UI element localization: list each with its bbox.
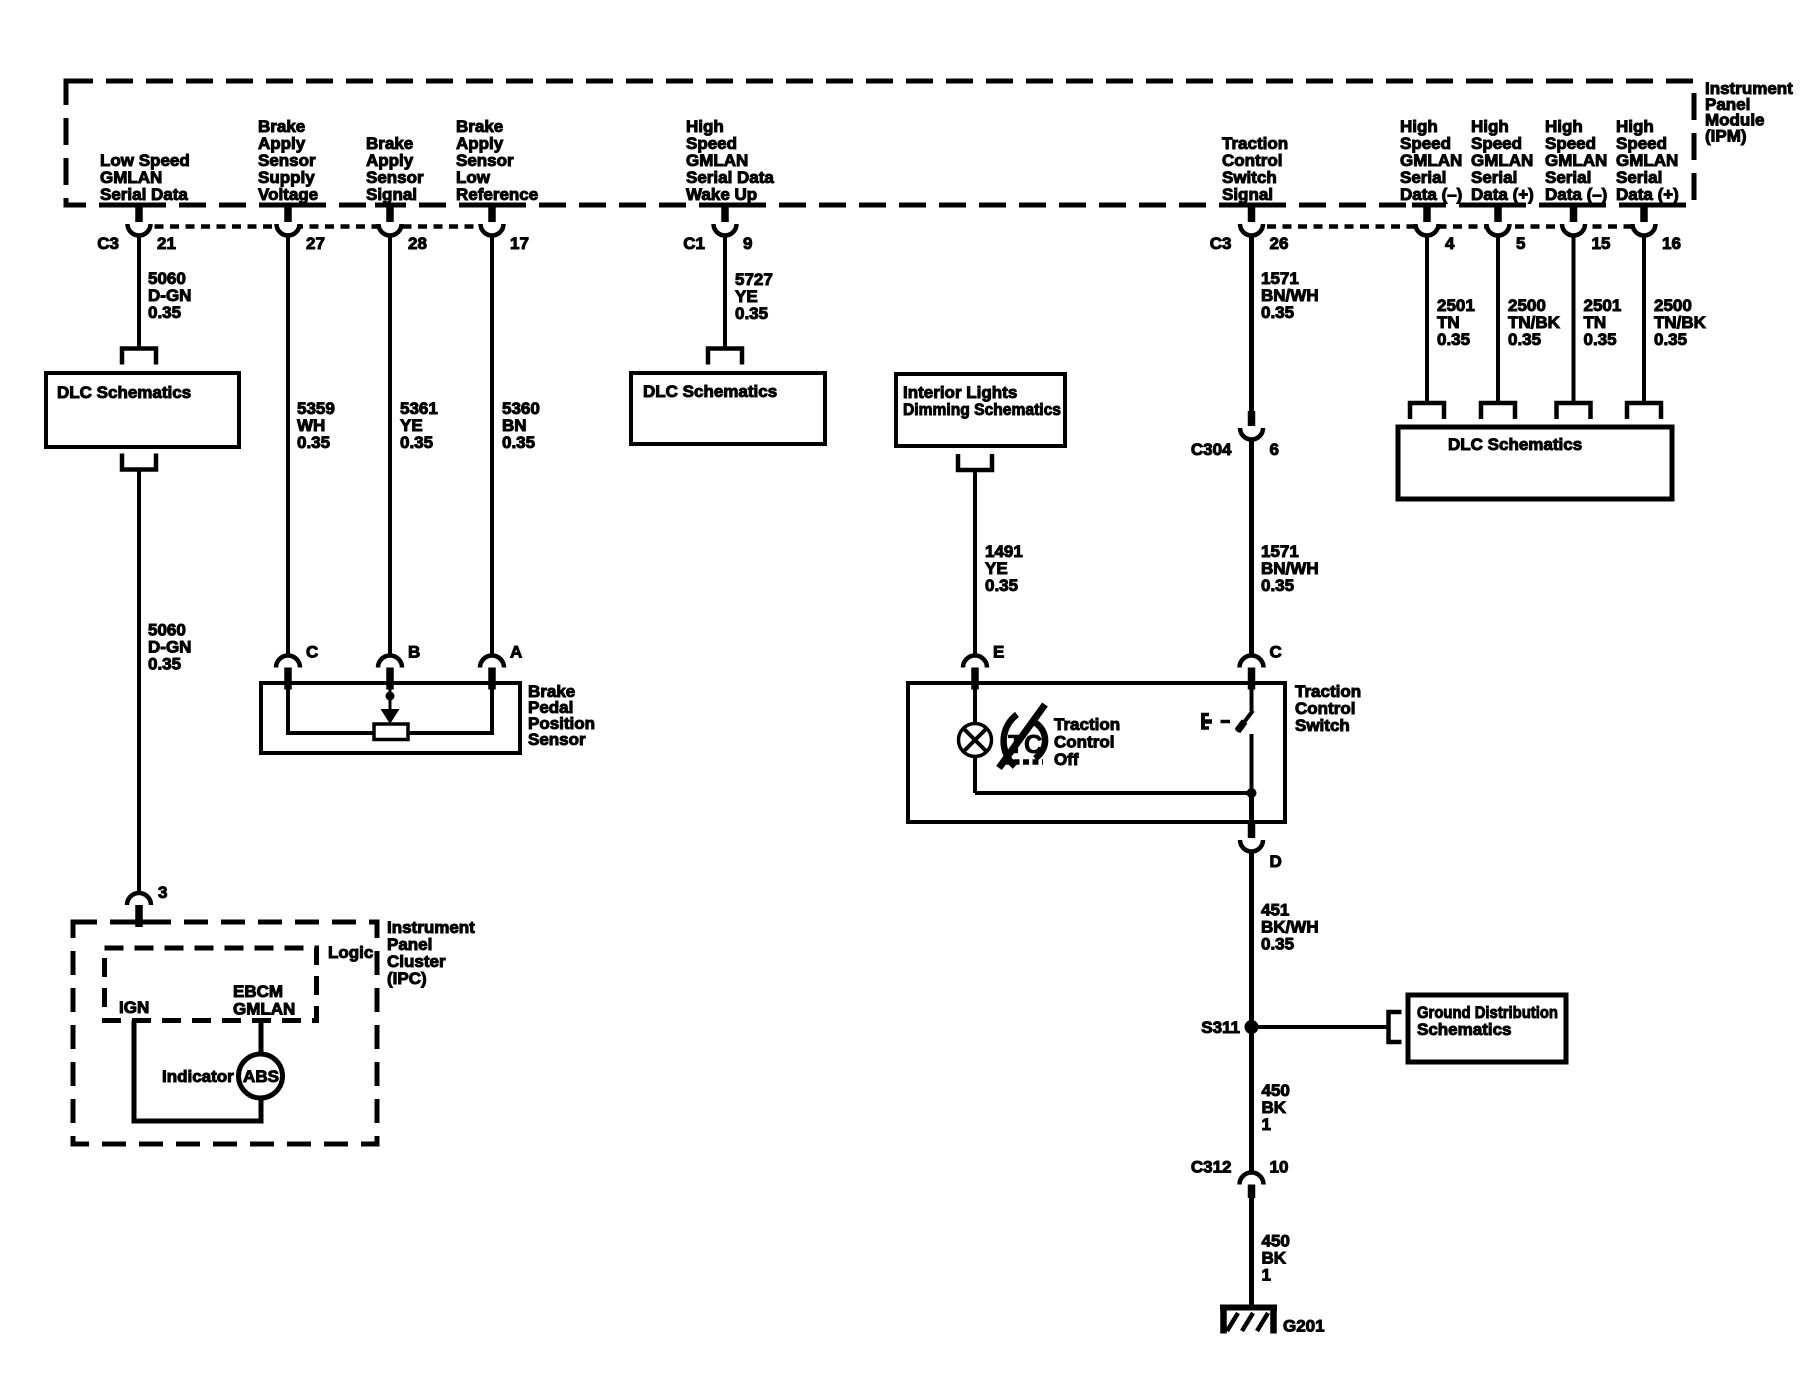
traction control off (TC) icon bbox=[999, 705, 1045, 769]
svg-text:Serial Data: Serial Data bbox=[100, 185, 188, 204]
svg-text:0.35: 0.35 bbox=[1437, 330, 1470, 349]
IPM edge tick at connector x=1251.5 bbox=[1237, 203, 1267, 208]
label: Indicator bbox=[162, 1067, 234, 1086]
connector pin 17 bbox=[481, 203, 529, 253]
svg-text:E: E bbox=[993, 643, 1004, 662]
wire 2501 TN (pin 4) bbox=[1425, 234, 1429, 402]
box: DLC Schematics (right) bbox=[1398, 427, 1672, 499]
label: Brake Apply Sensor Supply Voltage bbox=[258, 117, 318, 204]
svg-text:Traction: Traction bbox=[1054, 715, 1120, 734]
svg-text:S311: S311 bbox=[1201, 1018, 1240, 1037]
svg-text:C3: C3 bbox=[97, 234, 119, 253]
connector C3 pin 21 bbox=[97, 203, 176, 253]
wire 5361 YE bbox=[388, 234, 392, 656]
label: wire 5060 D-GN 0.35 (upper) bbox=[148, 269, 191, 322]
potentiometer element bbox=[374, 724, 408, 740]
wire 5060 D-GN upper segment bbox=[137, 234, 141, 348]
svg-text:1: 1 bbox=[1262, 1266, 1271, 1285]
label: High Speed GMLAN Serial Data (-) pin4 bbox=[1400, 117, 1462, 204]
wire 450 BK lower segment bbox=[1249, 1198, 1254, 1309]
label: wire 450 BK 1 (upper) bbox=[1262, 1081, 1290, 1134]
svg-text:Voltage: Voltage bbox=[258, 185, 318, 204]
svg-text:3: 3 bbox=[158, 883, 167, 902]
label: wire 450 BK 1 (lower) bbox=[1262, 1232, 1290, 1285]
svg-text:Indicator: Indicator bbox=[162, 1067, 234, 1086]
svg-text:D: D bbox=[1270, 852, 1282, 871]
svg-text:0.35: 0.35 bbox=[1584, 330, 1617, 349]
box: DLC Schematics (middle) bbox=[631, 373, 825, 444]
label: Logic bbox=[328, 943, 373, 962]
svg-text:21: 21 bbox=[157, 234, 176, 253]
svg-text:C312: C312 bbox=[1191, 1158, 1232, 1177]
IPM edge tick at connector x=390 bbox=[375, 203, 405, 208]
svg-text:IGN: IGN bbox=[119, 998, 149, 1017]
IPM edge tick at connector x=725 bbox=[710, 203, 740, 208]
svg-text:0.35: 0.35 bbox=[1508, 330, 1541, 349]
switch fixed contact symbol bbox=[1201, 713, 1212, 730]
wire 2501 TN (pin 15) bbox=[1572, 234, 1576, 402]
off-page bracket to Ground Distribution Schematics bbox=[1389, 1012, 1402, 1042]
svg-text:Dimming Schematics: Dimming Schematics bbox=[903, 400, 1061, 419]
wire 5727 YE bbox=[723, 234, 727, 348]
svg-text:Control: Control bbox=[1054, 733, 1114, 752]
IPM edge tick at connector x=1427 bbox=[1412, 203, 1442, 208]
label: High Speed GMLAN Serial Data (+) pin16 bbox=[1616, 117, 1679, 204]
connector pin 4 bbox=[1416, 203, 1456, 253]
svg-text:Schematics: Schematics bbox=[1417, 1020, 1512, 1039]
label: wire 5727 YE 0.35 bbox=[735, 270, 773, 323]
svg-text:26: 26 bbox=[1270, 234, 1289, 253]
label: Brake Apply Sensor Signal bbox=[366, 134, 424, 204]
svg-text:A: A bbox=[510, 643, 522, 662]
wire 450 BK upper segment bbox=[1249, 1027, 1254, 1173]
connector pin D below switch bbox=[1240, 820, 1282, 871]
svg-text:0.35: 0.35 bbox=[297, 433, 330, 452]
svg-text:16: 16 bbox=[1662, 234, 1681, 253]
label: IGN bbox=[119, 998, 149, 1017]
connector pin 15 bbox=[1562, 203, 1610, 253]
off-page bracket 1 to DLC Schematics (right) bbox=[1410, 403, 1444, 419]
svg-text:17: 17 bbox=[510, 234, 529, 253]
label: Traction Control Off bbox=[1054, 715, 1120, 769]
svg-text:Data (+): Data (+) bbox=[1471, 185, 1534, 204]
svg-text:5: 5 bbox=[1516, 234, 1525, 253]
wire inside sensor from pin C to potentiometer bbox=[288, 685, 374, 733]
label: wire 1571 BN/WH 0.35 (upper) bbox=[1261, 269, 1319, 322]
wire 451 BK/WH bbox=[1249, 850, 1254, 1027]
connector pin 28 bbox=[379, 203, 427, 253]
junction dot inside switch bbox=[1247, 788, 1257, 798]
svg-text:4: 4 bbox=[1445, 234, 1455, 253]
ABS indicator circle bbox=[239, 1054, 283, 1098]
svg-text:0.35: 0.35 bbox=[985, 576, 1018, 595]
label: High Speed GMLAN Serial Data (+) pin5 bbox=[1471, 117, 1534, 204]
wire EBCM GMLAN to ABS bbox=[259, 1021, 264, 1055]
label: wire 5360 BN 0.35 bbox=[502, 399, 540, 452]
svg-text:C1: C1 bbox=[683, 234, 705, 253]
label: Low Speed GMLAN Serial Data bbox=[100, 151, 190, 204]
svg-text:0.35: 0.35 bbox=[148, 303, 181, 322]
svg-text:B: B bbox=[408, 643, 420, 662]
connector pin C at traction control switch bbox=[1240, 643, 1282, 690]
svg-text:Data (–): Data (–) bbox=[1400, 185, 1462, 204]
svg-text:0.35: 0.35 bbox=[148, 655, 181, 674]
svg-text:DLC Schematics: DLC Schematics bbox=[1448, 435, 1582, 454]
label: High Speed GMLAN Serial Data Wake Up bbox=[686, 117, 774, 204]
Logic dashed box bbox=[105, 948, 317, 1021]
switch dash bbox=[1221, 720, 1231, 724]
svg-text:ABS: ABS bbox=[243, 1067, 279, 1086]
off-page bracket to DLC Schematics (middle) bbox=[708, 349, 742, 365]
svg-text:Switch: Switch bbox=[1295, 716, 1350, 735]
svg-text:15: 15 bbox=[1592, 234, 1611, 253]
Instrument Panel Cluster (IPC) dashed box bbox=[73, 922, 377, 1144]
svg-text:0.35: 0.35 bbox=[1654, 330, 1687, 349]
off-page bracket 3 to DLC Schematics (right) bbox=[1557, 403, 1591, 419]
off-page bracket 4 to DLC Schematics (right) bbox=[1627, 403, 1661, 419]
svg-text:0.35: 0.35 bbox=[502, 433, 535, 452]
svg-text:DLC Schematics: DLC Schematics bbox=[643, 382, 777, 401]
svg-text:Reference: Reference bbox=[456, 185, 538, 204]
splice S311 bbox=[1201, 1018, 1258, 1037]
svg-text:0.35: 0.35 bbox=[735, 304, 768, 323]
box: Brake Pedal Position Sensor bbox=[261, 683, 520, 753]
svg-text:Off: Off bbox=[1054, 750, 1079, 769]
connector pin 5 bbox=[1487, 203, 1526, 253]
label: Brake Pedal Position Sensor bbox=[528, 682, 595, 749]
connector C312 pin 10 bbox=[1191, 1158, 1289, 1199]
svg-text:Wake Up: Wake Up bbox=[686, 185, 757, 204]
connector C1 pin 9 bbox=[683, 203, 752, 253]
connector pin A at brake pedal position sensor bbox=[480, 643, 522, 690]
svg-text:0.35: 0.35 bbox=[1261, 303, 1294, 322]
box: Traction Control Switch bbox=[908, 683, 1285, 822]
off-page bracket to DLC Schematics (top) bbox=[122, 349, 156, 365]
svg-text:9: 9 bbox=[743, 234, 752, 253]
IPC edge tick at connector 3 bbox=[125, 920, 153, 925]
label: wire 2500 TN/BK (pin 5) bbox=[1508, 296, 1561, 349]
label: Instrument Panel Cluster (IPC) bbox=[387, 918, 475, 988]
box: Interior Lights Dimming Schematics bbox=[896, 374, 1065, 446]
label: wire 2501 TN (pin 4) bbox=[1437, 296, 1475, 349]
switch blade bbox=[1237, 687, 1253, 793]
wire 2500 TN/BK (pin 5) bbox=[1496, 234, 1500, 402]
svg-text:10: 10 bbox=[1270, 1158, 1289, 1177]
wire 5359 WH bbox=[286, 234, 290, 656]
label: wire 1571 BN/WH 0.35 (lower) bbox=[1261, 542, 1319, 595]
svg-text:Signal: Signal bbox=[366, 185, 417, 204]
svg-text:6: 6 bbox=[1270, 440, 1279, 459]
off-page bracket from DLC Schematics (bottom) bbox=[122, 454, 156, 470]
svg-text:EBCM: EBCM bbox=[233, 982, 283, 1001]
connector pin 27 bbox=[277, 203, 325, 253]
IPM edge tick at connector x=492 bbox=[477, 203, 507, 208]
label: Traction Control Switch bbox=[1295, 682, 1361, 735]
svg-text:G201: G201 bbox=[1283, 1317, 1325, 1336]
IPM edge tick at connector x=1573.5 bbox=[1559, 203, 1589, 208]
svg-text:Data (–): Data (–) bbox=[1545, 185, 1607, 204]
box: DLC Schematics (left) bbox=[46, 373, 239, 447]
label: Brake Apply Sensor Low Reference bbox=[456, 117, 538, 204]
svg-text:0.35: 0.35 bbox=[1261, 935, 1294, 954]
connector pin E at traction control switch bbox=[963, 643, 1004, 690]
label: wire 451 BK/WH 0.35 bbox=[1261, 901, 1319, 954]
ground G201 bbox=[1220, 1305, 1325, 1336]
label: Instrument Panel Module (IPM) bbox=[1705, 79, 1793, 145]
wire lamp to switch leg bbox=[975, 791, 1252, 795]
label: High Speed GMLAN Serial Data (-) pin15 bbox=[1545, 117, 1607, 204]
label: wire 5060 D-GN 0.35 (lower) bbox=[148, 621, 191, 674]
IPM edge tick at connector x=288 bbox=[273, 203, 303, 208]
connector C304 pin 6 bbox=[1191, 411, 1279, 459]
off-page bracket 2 to DLC Schematics (right) bbox=[1481, 403, 1515, 419]
svg-text:C304: C304 bbox=[1191, 440, 1232, 459]
svg-text:Signal: Signal bbox=[1222, 185, 1273, 204]
label: wire 5361 YE 0.35 bbox=[400, 399, 438, 452]
wire S311 to ground distribution bbox=[1252, 1025, 1389, 1029]
svg-text:28: 28 bbox=[408, 234, 427, 253]
svg-text:0.35: 0.35 bbox=[400, 433, 433, 452]
wire 2500 TN/BK (pin 16) bbox=[1642, 234, 1646, 402]
svg-text:Logic: Logic bbox=[328, 943, 373, 962]
label: EBCM GMLAN bbox=[233, 982, 295, 1019]
svg-text:C: C bbox=[306, 643, 318, 662]
svg-text:Data (+): Data (+) bbox=[1616, 185, 1679, 204]
wire switch to pin D bbox=[1249, 793, 1254, 822]
wire inside sensor from pin A to potentiometer bbox=[408, 685, 492, 733]
wire 5360 BN bbox=[490, 234, 494, 656]
svg-text:0.35: 0.35 bbox=[1261, 576, 1294, 595]
svg-text:27: 27 bbox=[306, 234, 325, 253]
label: wire 5359 WH 0.35 bbox=[297, 399, 335, 452]
connector C3 pin 26 bbox=[1210, 203, 1289, 253]
svg-text:(IPM): (IPM) bbox=[1705, 126, 1747, 145]
IPM edge tick at connector x=139 bbox=[124, 203, 154, 208]
wiper arrow from pin B bbox=[381, 685, 400, 724]
label: Traction Control Switch Signal bbox=[1222, 134, 1288, 204]
wire 1571 BN/WH upper segment bbox=[1249, 234, 1254, 412]
svg-text:GMLAN: GMLAN bbox=[233, 1000, 295, 1019]
wire 1571 BN/WH lower segment bbox=[1249, 440, 1254, 656]
svg-text:(IPC): (IPC) bbox=[387, 969, 427, 988]
svg-text:Sensor: Sensor bbox=[528, 730, 586, 749]
wire 5060 D-GN lower segment bbox=[137, 470, 141, 895]
connector dotted harness line (right) bbox=[1252, 224, 1645, 229]
connector C3 dotted harness line (left) bbox=[139, 224, 491, 229]
svg-text:C: C bbox=[1270, 643, 1282, 662]
off-page bracket from Interior Lights Dimming Schematics bbox=[958, 454, 992, 470]
indicator lamp (circle-X) bbox=[959, 685, 992, 793]
label: wire 1491 YE 0.35 bbox=[985, 542, 1023, 595]
svg-text:C3: C3 bbox=[1210, 234, 1232, 253]
wire 1491 YE bbox=[973, 470, 977, 656]
box: Ground Distribution Schematics bbox=[1408, 995, 1566, 1062]
label: wire 2500 TN/BK (pin 16) bbox=[1654, 296, 1707, 349]
Instrument Panel Module (IPM) dashed box bbox=[66, 81, 1694, 205]
label: wire 2501 TN (pin 15) bbox=[1584, 296, 1622, 349]
connector pin B at brake pedal position sensor bbox=[378, 643, 420, 690]
svg-text:1: 1 bbox=[1262, 1115, 1271, 1134]
svg-text:DLC Schematics: DLC Schematics bbox=[57, 383, 191, 402]
wire IGN loop to ABS indicator bbox=[134, 1021, 261, 1122]
IPM edge tick at connector x=1498 bbox=[1483, 203, 1513, 208]
connector pin C at brake pedal position sensor bbox=[276, 643, 318, 690]
connector pin 16 bbox=[1633, 203, 1681, 253]
IPM edge tick at connector x=1644 bbox=[1629, 203, 1659, 208]
connector pin 3 at IPC bbox=[127, 883, 167, 927]
